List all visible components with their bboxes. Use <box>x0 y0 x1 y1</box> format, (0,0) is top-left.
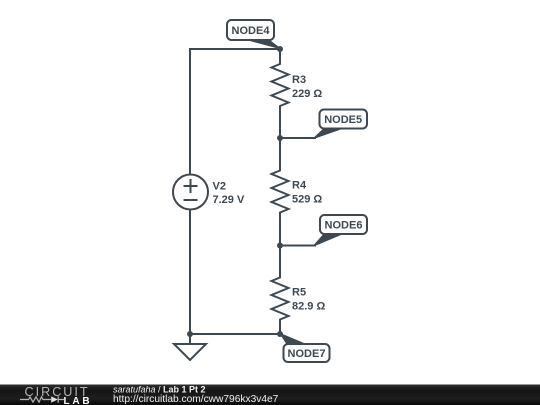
junction dot NODE7 <box>277 331 283 337</box>
junction dot NODE4 <box>277 46 283 52</box>
wire bottom-left L from V2 bottom to NODE7 junction <box>190 210 280 335</box>
svg-text:R5: R5 <box>292 287 306 299</box>
node NODE5 flag <box>314 110 368 139</box>
svg-text:NODE5: NODE5 <box>324 114 362 126</box>
svg-text:R4: R4 <box>292 180 307 192</box>
wire top-left L from V2 top to NODE4 junction <box>190 49 280 175</box>
resistor R5 <box>272 246 289 335</box>
svg-text:V2: V2 <box>213 181 226 193</box>
voltage source V2 <box>173 175 208 210</box>
svg-text:82.9 Ω: 82.9 Ω <box>292 301 325 313</box>
node NODE7 flag <box>280 334 330 363</box>
svg-text:529 Ω: 529 Ω <box>292 194 322 206</box>
svg-text:R3: R3 <box>292 74 306 86</box>
svg-text:7.29 V: 7.29 V <box>213 194 245 206</box>
svg-text:229 Ω: 229 Ω <box>292 88 322 100</box>
svg-text:NODE4: NODE4 <box>232 25 271 37</box>
svg-text:saratufaha / Lab 1 Pt 2: saratufaha / Lab 1 Pt 2 <box>113 385 206 395</box>
junction dot ground <box>187 331 193 337</box>
svg-text:LAB: LAB <box>64 396 93 405</box>
node NODE4 flag <box>227 20 280 49</box>
svg-text:NODE6: NODE6 <box>325 220 363 232</box>
node NODE6 flag <box>314 215 368 246</box>
svg-text:NODE7: NODE7 <box>288 348 326 360</box>
ground <box>174 334 206 360</box>
svg-text:http://circuitlab.com/cww796kx: http://circuitlab.com/cww796kx3v4e7 <box>113 394 279 405</box>
footer bar <box>0 385 540 405</box>
junction dot NODE5 <box>277 135 283 141</box>
resistor R3 <box>272 49 289 138</box>
junction dot NODE6 <box>277 243 283 249</box>
wire NODE5 stub <box>280 137 316 139</box>
wire NODE6 stub <box>280 245 316 247</box>
CircuitLab logo <box>20 385 92 405</box>
resistor R4 <box>272 138 289 246</box>
